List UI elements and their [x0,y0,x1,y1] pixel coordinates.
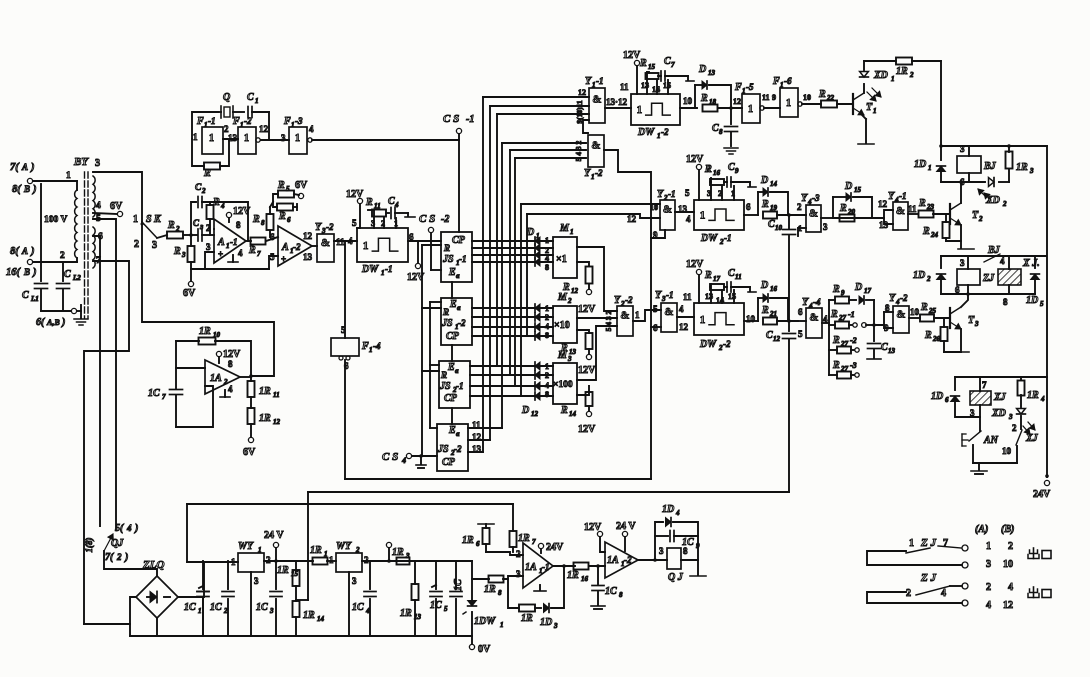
svg-text:-2: -2 [850,336,857,345]
svg-text:3: 3 [823,222,828,232]
svg-text:3: 3 [269,607,274,615]
counter JS1-2 [441,298,472,345]
ground A1-1 [232,255,234,262]
svg-text:-1: -1 [385,264,393,274]
svg-text:-2: -2 [441,214,449,225]
svg-text:1R: 1R [896,66,908,77]
svg-text:2: 2 [60,251,65,261]
svg-text:WY: WY [238,541,254,552]
svg-text:): ) [30,246,35,257]
wire T3 collector to ZJ [961,294,968,307]
node 12V terminal 1A1-2 [597,531,602,536]
svg-text:6V: 6V [243,447,256,458]
svg-text:Z J: Z J [920,537,936,549]
wire Y3-2 to DW1-1 [334,240,357,242]
monostable DW1-1 [357,228,408,262]
svg-text:1: 1 [369,346,373,354]
svg-text:6: 6 [270,232,275,242]
svg-text:1R: 1R [518,533,530,544]
wire secondary pin3 to SK [93,172,142,222]
wire Y2-1 out to DW2-1 [675,211,694,213]
svg-text:11: 11 [908,204,917,214]
wire Y2-1 pin9 down [651,230,665,238]
svg-text:&: & [809,207,818,219]
svg-text:XJ: XJ [993,392,1007,403]
label exit 1 [1033,548,1035,559]
svg-text:C: C [768,219,775,230]
svg-text:13: 13 [888,347,896,355]
svg-text:R: R [173,246,181,257]
svg-text:-2: -2 [661,127,669,137]
node 12V terminal DW2-1 [696,164,701,169]
svg-text:12: 12 [627,214,637,224]
svg-text:F: F [283,116,291,127]
svg-text:Y: Y [584,168,591,179]
svg-text:6V: 6V [110,201,123,212]
svg-text:R: R [277,180,285,191]
wire A1-1 inputs [205,252,214,269]
svg-text:C: C [193,218,200,228]
wire 16B vertical [40,184,42,262]
svg-text:-4: -4 [373,341,381,351]
wire bus nest [483,96,589,98]
svg-text:5 4 3 2: 5 4 3 2 [574,140,583,161]
svg-text:12: 12 [1003,600,1013,611]
wire 1A2 input left [175,341,177,388]
svg-text:-2: -2 [458,318,466,328]
svg-text:10: 10 [650,203,658,212]
svg-text:R: R [562,282,570,293]
svg-text:3: 3 [659,546,664,556]
svg-text:4: 4 [126,523,132,533]
counter JS2-2 [437,424,468,471]
svg-text:DW: DW [637,127,655,138]
node 24V terminal 1A1-2 [622,531,627,536]
svg-text:1C: 1C [352,602,364,613]
svg-text:6V: 6V [183,288,196,299]
svg-text:8: 8 [1003,297,1008,307]
svg-text:4: 4 [686,214,691,224]
svg-text:1: 1 [748,104,753,115]
svg-text:1: 1 [255,97,259,105]
svg-text:-4: -4 [813,297,821,307]
svg-text:D: D [760,280,768,291]
svg-text:a: a [456,430,460,438]
svg-text:1R: 1R [1027,390,1039,401]
svg-text:1D: 1D [931,391,943,402]
svg-text:1A: 1A [525,562,537,573]
monostable DW2-2 [694,303,744,335]
svg-text:24 V: 24 V [616,521,636,532]
svg-text:1: 1 [570,228,574,236]
svg-text:3: 3 [352,576,357,586]
svg-text:8: 8 [545,263,549,272]
svg-text:1C: 1C [148,388,160,399]
svg-text:-2: -2 [625,295,633,305]
svg-text:4: 4 [220,202,225,210]
svg-text:): ) [30,162,35,173]
ground 1A1-1 [539,585,541,590]
wire Y3-1 pin6 [651,326,661,328]
wire A1-2 out [312,245,317,247]
svg-text:F: F [232,116,240,127]
svg-text:R: R [167,220,175,231]
svg-text:1R: 1R [259,413,271,424]
svg-text:2: 2 [926,275,931,283]
svg-text:14: 14 [317,615,325,623]
node 12V terminal DW2-2 [696,269,701,274]
svg-text:JS: JS [442,254,454,265]
svg-text:C: C [728,162,735,173]
svg-text:-3: -3 [850,361,857,370]
svg-text:6(: 6( [36,317,45,328]
svg-text:&: & [809,312,818,324]
wire JS left pin bus Ea [430,301,441,303]
wire Y4-3 out [821,217,833,219]
svg-text:-1: -1 [666,290,674,300]
svg-text:16: 16 [581,575,589,583]
svg-text:1: 1 [657,132,661,140]
wire CS-1 down to JS1-1 CP [458,134,460,232]
svg-text:1: 1 [700,210,706,222]
svg-text:-2: -2 [326,222,334,232]
svg-text:R: R [761,199,769,210]
wire T3 emitter ground [960,329,962,350]
svg-text:2: 2 [266,555,271,565]
svg-text:7: 7 [671,61,675,69]
svg-text:a: a [456,272,460,280]
svg-text:M: M [557,292,568,303]
svg-text:C: C [22,290,29,301]
svg-text:4: 4 [309,124,314,134]
label exit 2 [1033,587,1035,598]
svg-text:1R: 1R [303,610,315,621]
svg-text:8: 8 [261,219,265,227]
svg-text:R: R [922,226,930,237]
svg-text:1: 1 [329,555,334,565]
svg-text:C S: C S [443,113,459,125]
svg-text:5: 5 [685,188,690,198]
transistor T2 [949,204,951,224]
svg-text:0V: 0V [478,644,491,655]
svg-text:2: 2 [516,549,521,559]
svg-text:-3: -3 [295,116,303,126]
svg-text:Y: Y [802,297,809,308]
svg-text:C: C [712,123,719,134]
svg-text:1: 1 [193,132,198,142]
svg-text:-5: -5 [746,82,754,92]
svg-text:1: 1 [381,269,385,277]
transformer BY secondary winding lower [93,227,95,268]
svg-text:5 4 3 2: 5 4 3 2 [604,310,613,331]
svg-text:12V: 12V [233,206,251,217]
wire primary top [33,180,77,182]
diode row JS1-2 outputs [472,307,553,309]
svg-text:(A): (A) [975,524,988,535]
svg-text:1R: 1R [259,386,271,397]
wire ZLQ left to bottom rail [130,597,136,636]
svg-text:15: 15 [648,63,656,71]
svg-text:3: 3 [986,559,991,570]
svg-text:12: 12 [259,124,269,134]
svg-text:R: R [560,343,568,354]
svg-text:-1: -1 [724,233,732,243]
svg-text:C: C [881,342,888,353]
wire AN section top rail [955,376,1047,378]
svg-text:D: D [844,181,852,192]
svg-text:-2: -2 [723,339,731,349]
svg-text:6: 6 [945,396,949,404]
svg-text:CP: CP [446,331,460,342]
svg-text:9: 9 [735,167,739,175]
wire WY2 out rail [362,560,472,562]
svg-text:2: 2 [364,555,369,565]
svg-text:D: D [854,282,862,293]
svg-text:-2: -2 [595,168,603,178]
svg-text:R: R [442,307,449,317]
wire right rail upper [941,61,1047,146]
svg-text:2: 2 [116,552,122,562]
counter JS2-1 [439,361,470,408]
inverter F1-4 [344,241,346,338]
node 6V terminal below R3 [188,281,193,286]
wire DW1-1 out to JS1-1 [408,240,441,242]
svg-text:E: E [448,425,456,436]
svg-text:-2: -2 [454,444,462,454]
relay ZJ [957,269,980,285]
wire C2 loop right [247,202,249,241]
svg-text:A: A [21,246,28,256]
wire T2 emitter ground [960,225,962,248]
svg-text:Y: Y [655,290,662,301]
svg-text:R: R [832,360,840,371]
svg-text:2: 2 [567,297,572,305]
svg-text:1: 1 [500,621,504,629]
svg-text:A: A [21,162,28,172]
svg-text:12V: 12V [578,424,596,435]
svg-text:BY: BY [73,156,89,168]
svg-text:7: 7 [532,538,536,546]
svg-text:1C: 1C [256,602,268,613]
node 0V terminal [471,636,473,644]
node 6V terminal 1A2 [248,437,253,442]
svg-text:L2: L2 [72,274,81,282]
node 12V terminal A1-1 [226,212,231,217]
svg-text:14: 14 [652,85,660,94]
svg-text:8: 8 [228,359,233,369]
svg-text:B: B [23,267,30,277]
svg-text:Y: Y [801,193,808,204]
svg-text:X J.: X J. [1022,258,1040,269]
svg-text:D: D [760,175,768,186]
svg-text:C: C [247,92,254,103]
svg-text:R: R [704,270,712,281]
svg-text:14: 14 [569,410,577,418]
node terminal above 1C5 [386,542,391,547]
svg-text:Y: Y [585,76,592,87]
svg-text:XJ: XJ [1025,433,1039,444]
svg-text:&: & [321,237,330,249]
svg-text:AN: AN [983,435,999,446]
svg-text:1D: 1D [1026,295,1038,306]
svg-text:): ) [61,317,65,328]
svg-text:1: 1 [363,240,369,252]
svg-text:-2: -2 [900,293,908,303]
svg-text:A: A [281,242,289,253]
svg-text:1: 1 [928,164,932,172]
svg-text:11: 11 [273,391,280,399]
svg-text:8: 8 [719,128,723,136]
svg-text:DW: DW [699,339,717,350]
wire right rail lower / 24V [1046,146,1048,477]
transistor T3 [949,308,951,328]
svg-text:7: 7 [162,393,166,401]
svg-text:Y: Y [614,295,621,306]
svg-text:10: 10 [910,307,920,317]
svg-text:3: 3 [567,355,572,363]
svg-text:8: 8 [236,220,241,230]
svg-text:2: 2 [978,215,983,223]
svg-text:13: 13 [303,252,313,262]
svg-text:R: R [830,309,838,320]
wire transformer taps down to QJ [93,219,116,530]
svg-text:ZLQ: ZLQ [142,559,164,571]
svg-text:R: R [248,245,256,256]
svg-text:S K: S K [146,214,162,225]
svg-text:5: 5 [444,605,448,613]
ground 1A2 [224,390,226,397]
node 12V terminal below [415,263,420,268]
svg-text:12V: 12V [623,50,641,61]
svg-text:ZJ: ZJ [982,273,995,284]
svg-text:1: 1 [295,133,300,144]
svg-text:1R: 1R [1016,162,1028,173]
wire bottom bus mid [308,491,789,493]
svg-text:1R: 1R [277,565,289,576]
svg-text:&: & [664,306,673,318]
svg-text:2: 2 [1012,423,1017,433]
svg-text:-3: -3 [812,193,820,203]
wire Y1-1 Y1-2 link [583,120,589,133]
node 12V terminal DW1-1 [357,198,362,203]
svg-text:1R: 1R [199,326,211,337]
svg-text:1: 1 [986,541,991,552]
svg-text:8: 8 [619,591,623,599]
svg-text:2: 2 [986,582,991,593]
svg-text:1: 1 [133,214,138,225]
svg-text:2: 2 [1008,541,1013,552]
svg-text:5: 5 [270,252,275,262]
svg-text:12: 12 [679,322,689,332]
svg-text:1: 1 [909,538,914,549]
svg-text:2: 2 [909,71,914,79]
node 12V terminal 1A2 [216,351,221,356]
svg-text:): ) [124,552,128,563]
svg-text:×1: ×1 [556,254,567,265]
svg-text:-1: -1 [459,254,467,264]
svg-text:T: T [972,210,979,221]
wire ZJ row top rail [941,255,1046,257]
svg-text:-1: -1 [466,114,474,125]
wire Y1-1 out to DW1-2 [605,107,631,109]
svg-text:R: R [365,197,373,208]
svg-text:D: D [698,64,706,75]
svg-text:100 V: 100 V [44,215,67,225]
wire T2 collector [960,182,962,203]
svg-text:4: 4 [1000,256,1005,266]
svg-text:11: 11 [683,292,692,302]
wire T1 emitter ground [862,115,866,119]
svg-text:3: 3 [974,320,979,328]
svg-text:26: 26 [932,335,941,343]
svg-text:13: 13 [569,348,577,356]
svg-text:3: 3 [960,144,965,154]
svg-text:4: 4 [986,600,991,611]
transformer BY secondary winding upper [93,176,95,217]
svg-text:6: 6 [746,202,751,212]
svg-text:T: T [968,315,975,326]
svg-text:E: E [449,299,457,310]
svg-text:10: 10 [1002,446,1012,456]
gate Y1-2 [588,135,604,167]
svg-text:&: & [591,139,600,151]
svg-text:(B): (B) [1001,524,1014,535]
svg-text:8: 8 [545,390,549,399]
wire plus-input rail [191,268,269,270]
svg-text:C: C [64,269,71,280]
svg-text:M: M [559,223,570,234]
svg-text:1: 1 [231,557,236,567]
svg-text:C S: C S [382,451,398,463]
svg-text:JS: JS [439,381,451,392]
svg-text:3: 3 [1008,413,1013,421]
svg-text:&: & [620,310,629,322]
svg-text:4: 4 [228,384,233,394]
wire Y4-4 out to resistor bank [822,322,829,324]
svg-text:4: 4 [401,456,406,465]
svg-text:CP: CP [452,235,466,246]
svg-text:4: 4 [675,509,680,517]
svg-text:Q: Q [223,92,230,103]
svg-text:1R: 1R [521,613,533,624]
svg-text:4: 4 [1008,582,1013,593]
svg-text:5: 5 [653,304,658,314]
svg-text:R: R [278,211,286,222]
svg-text:L1: L1 [30,295,39,303]
svg-text:6V: 6V [295,180,308,191]
svg-text:16: 16 [770,285,778,293]
svg-text:-1: -1 [208,116,216,126]
svg-text:1: 1 [244,133,249,144]
wire JS left pin bus R [422,244,441,246]
svg-text:2: 2 [1002,200,1007,208]
svg-text:+: + [218,249,223,259]
svg-text:): ) [32,267,37,278]
svg-text:Y: Y [889,293,896,304]
svg-text:1C: 1C [605,586,617,597]
svg-text:R: R [920,302,928,313]
op-amp A1-1 [214,219,246,263]
svg-text:4: 4 [238,248,243,258]
svg-text:-1: -1 [668,189,676,199]
svg-text:12V: 12V [584,522,602,533]
svg-text:1: 1 [873,107,877,115]
svg-text:3: 3 [960,258,965,268]
svg-text:R: R [440,370,447,380]
wire JS inter-box links [451,282,453,298]
svg-text:12V: 12V [578,304,596,315]
svg-text:10: 10 [803,93,811,102]
